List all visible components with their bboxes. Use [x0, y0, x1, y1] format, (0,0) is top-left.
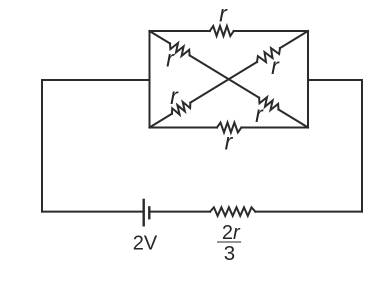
resistor R5a value r (upper-right diagonal): [257, 48, 280, 62]
resistor R3 value r (upper-left diagonal): [170, 43, 190, 56]
wire: bridge top edge left lead: [150, 30, 210, 32]
svg-text:2r: 2r: [222, 222, 241, 244]
wire: diagonal middle segment TR-BL: [190, 62, 257, 103]
battery BT1 2V: [144, 200, 150, 225]
resistor R4 value r (lower-right diagonal): [259, 97, 278, 110]
wire: bridge bottom edge right lead: [241, 127, 308, 129]
wire: bridge right edge (node B): [307, 31, 309, 128]
wire: outer loop right vertical: [361, 80, 363, 212]
svg-text:r: r: [271, 53, 280, 79]
svg-text:r: r: [170, 83, 179, 109]
wire: diagonal TL to first resistor: [150, 31, 171, 44]
wire: bridge top edge right lead: [234, 30, 308, 32]
resistor R1 value r (top edge): [210, 26, 234, 36]
wire: diagonal to BR corner: [279, 110, 309, 128]
svg-text:r: r: [219, 1, 228, 27]
wire: bridge left edge (node A): [149, 31, 151, 128]
wire: bridge bottom edge left lead: [150, 127, 218, 129]
resistor R2 value r (bottom edge): [217, 123, 241, 133]
wire: outer loop left vertical: [41, 80, 43, 212]
fraction bar of 2r/3: [217, 241, 241, 243]
wire: outer loop left horizontal to bridge: [42, 79, 150, 81]
wire: bottom segment battery to resistor: [150, 211, 210, 213]
resistor R5b value r (lower-left diagonal): [172, 102, 191, 115]
svg-text:3: 3: [224, 242, 235, 265]
wire: outer loop right horizontal from bridge: [308, 79, 362, 81]
svg-text:2V: 2V: [133, 233, 158, 255]
resistor R6 value 2r/3: [210, 207, 255, 216]
wire: diagonal TR to first resistor: [280, 31, 308, 48]
svg-text:r: r: [255, 101, 264, 127]
svg-text:r: r: [166, 46, 175, 72]
wire: diagonal middle segment TL-BR: [190, 55, 260, 97]
wire: bottom left segment to battery: [42, 211, 144, 213]
wire: bottom right segment resistor to corner: [255, 211, 362, 213]
svg-text:r: r: [225, 129, 234, 155]
wire: diagonal to BL corner: [150, 114, 172, 128]
